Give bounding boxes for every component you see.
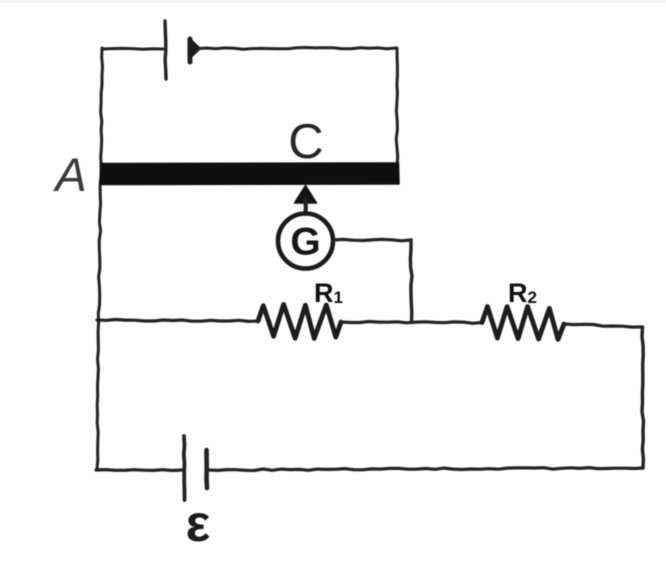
battery cell ε (bottom, main cell) <box>184 436 207 500</box>
svg-text:G: G <box>290 221 320 264</box>
resistor R1 <box>258 304 341 338</box>
wire: main horizontal, left segment (A to R1) <box>97 320 258 322</box>
wire: bottom horizontal, right lead of cell ε <box>209 468 643 471</box>
wire: bottom horizontal, left lead of cell ε <box>96 468 182 472</box>
jockey arrow (sliding contact onto bar) <box>295 186 317 215</box>
svg-text:C: C <box>288 115 323 169</box>
battery cell (top, driver cell) <box>165 21 200 79</box>
svg-text:A: A <box>52 148 86 201</box>
wire: right vertical bus <box>642 327 644 468</box>
wire: left vertical bus (node A branch) <box>97 48 103 469</box>
svg-text:ε: ε <box>186 495 211 553</box>
resistor R2 <box>482 307 564 340</box>
wire: right vertical of top loop <box>396 48 398 166</box>
wire: right horizontal from R2 to right corner <box>564 324 642 327</box>
potentiometer wire bar C (thick bar between A and right side) <box>101 163 400 185</box>
wire: galvanometer right terminal to junction column <box>334 239 412 241</box>
galvanometer G <box>278 214 333 269</box>
wire: top horizontal, left lead of top cell <box>102 47 163 51</box>
wire: horizontal between R1 and R2 (through junction) <box>341 322 482 324</box>
wire: junction vertical drop to resistor line (node between R1 and R2) <box>410 240 412 322</box>
wire: top horizontal, right lead of top cell <box>198 48 396 50</box>
